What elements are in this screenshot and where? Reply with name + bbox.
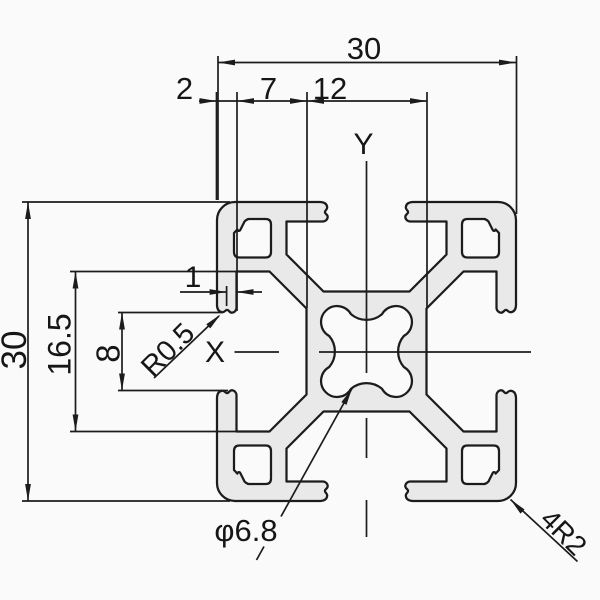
extension line 16.5 bottom <box>70 431 236 433</box>
extension line for dim 1 groove <box>226 286 228 306</box>
corner screw hole top-right <box>462 219 499 258</box>
svg-text:7: 7 <box>260 71 277 106</box>
arrowhead dim 30 left bottom <box>25 484 31 501</box>
corner screw hole top-left <box>234 219 271 258</box>
svg-text:Y: Y <box>353 128 373 161</box>
arrowhead dim 30 top right <box>499 60 516 66</box>
corner screw hole bottom-right <box>462 446 499 485</box>
svg-text:φ6.8: φ6.8 <box>214 513 277 548</box>
extrusion profile outer cross-section outline with four T-slots <box>217 202 516 501</box>
arrowhead dim 8 bottom <box>119 374 125 391</box>
arrowhead dim 12 right <box>410 98 427 104</box>
dimension line 30 top <box>218 62 516 64</box>
arrowhead dim 8 top <box>119 313 125 330</box>
extension line x=427 for dim 12 <box>426 92 428 308</box>
svg-text:X: X <box>205 336 225 369</box>
leader line R0.5 <box>154 316 219 378</box>
extension line x=237 for dims 2/7 <box>236 92 238 311</box>
arrowhead dim 2 left <box>200 98 217 104</box>
arrowhead dim 1 right <box>237 289 254 295</box>
centerline Y axis vertical <box>366 161 368 537</box>
svg-text:1: 1 <box>185 261 202 294</box>
corner screw hole bottom-left <box>234 446 271 485</box>
arrowhead dim 16.5 bottom <box>73 415 79 432</box>
arrowhead dim 12 left <box>307 98 324 104</box>
center bore phi 6.8 (clover shaped) <box>321 306 412 397</box>
arrowhead dim 1 left <box>210 289 227 295</box>
svg-text:8: 8 <box>90 344 127 362</box>
arrowhead dim 30 left top <box>25 202 31 219</box>
dimension line 30 left <box>27 202 29 501</box>
extension line 16.5 top <box>70 271 236 273</box>
extension line x=216.5 for dim 2 <box>216 92 218 200</box>
arrowhead dim 30 top left <box>218 60 235 66</box>
svg-text:30: 30 <box>0 331 34 370</box>
svg-text:2: 2 <box>176 71 193 106</box>
extension line 30 left bottom <box>22 500 230 502</box>
dimension line 8 <box>121 313 123 391</box>
arrowhead dim 7 right <box>290 98 307 104</box>
leader line phi6.8 lower <box>257 547 265 561</box>
extension line 8 bottom <box>118 390 228 392</box>
dimension 1 right line <box>237 291 263 293</box>
arrowhead dim 16.5 top <box>73 272 79 289</box>
arrowhead leader 4R2 <box>511 500 525 514</box>
extension line x=307 for dims 7/12 <box>306 92 308 308</box>
leader line 4R2 <box>511 500 578 562</box>
svg-text:16.5: 16.5 <box>42 313 78 375</box>
dimension line 16.5 <box>75 272 77 432</box>
extension line 30 top right <box>516 56 518 214</box>
centerline X axis horizontal <box>235 351 532 353</box>
svg-text:12: 12 <box>313 71 347 106</box>
arrowhead leader R0.5 <box>206 315 220 329</box>
leader line phi6.8 upper <box>281 389 352 517</box>
extension line 30 left top <box>22 201 230 203</box>
arrowhead leader phi6.8 <box>341 389 352 405</box>
dimension line 2/7/12 <box>199 100 427 102</box>
svg-text:30: 30 <box>347 31 381 66</box>
arrowhead dim 2/7 at x=237 <box>237 98 254 104</box>
extension line 30 top left <box>217 56 219 200</box>
extension line 8 top <box>118 312 222 314</box>
dimension 1 left line <box>180 291 227 293</box>
